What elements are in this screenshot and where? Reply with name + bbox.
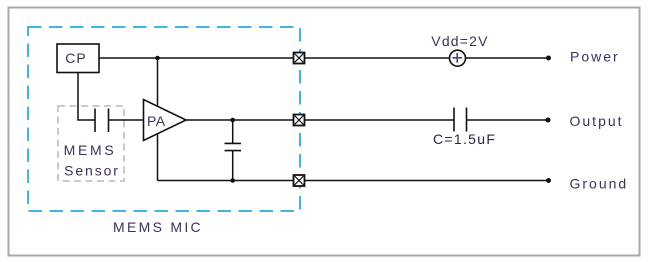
wire PA bottom to ground <box>157 134 159 181</box>
node ground terminal <box>546 178 551 183</box>
op-amp PA (preamplifier) <box>144 100 187 141</box>
node junction output/bypass cap <box>230 118 235 123</box>
wire output pad to coupling cap <box>305 119 455 121</box>
capacitor C=1.5uF <box>454 108 467 132</box>
node power terminal <box>546 56 551 61</box>
wire junction down to PA bias <box>157 58 159 107</box>
MEMS sensor capacitor <box>95 109 109 133</box>
wire sensor to PA input <box>109 119 144 121</box>
label MEMS Sensor <box>64 142 120 179</box>
svg-text:Sensor: Sensor <box>64 163 120 179</box>
node output terminal <box>546 118 551 123</box>
MEMS Sensor dashed box <box>58 106 124 181</box>
svg-text:Power: Power <box>570 49 620 65</box>
node junction on power wire <box>155 56 160 61</box>
svg-text:Output: Output <box>570 113 624 129</box>
wire coupling cap to output terminal <box>467 119 549 121</box>
voltage source Vdd <box>450 50 466 66</box>
ground wire inside mic <box>158 180 294 182</box>
charge pump CP <box>57 44 99 73</box>
wire power pad to Vdd source <box>305 57 450 59</box>
bypass capacitor <box>225 120 242 181</box>
svg-text:CP: CP <box>65 50 86 66</box>
MEMS MIC dashed boundary box <box>28 27 300 211</box>
wire CP bottom down <box>78 73 95 121</box>
pad power <box>294 53 305 64</box>
svg-text:MEMS: MEMS <box>64 142 117 158</box>
pad output <box>294 115 305 126</box>
wire PA output to output pad <box>186 119 294 121</box>
wire ground pad to ground terminal <box>305 180 549 182</box>
svg-text:Ground: Ground <box>570 176 629 192</box>
wire Vdd source to power terminal <box>466 57 549 59</box>
node junction ground/bypass cap <box>230 178 235 183</box>
pad ground <box>294 175 305 186</box>
svg-text:MEMS MIC: MEMS MIC <box>113 219 203 235</box>
wire CP output to power pad <box>99 57 294 59</box>
svg-text:C=1.5uF: C=1.5uF <box>433 131 496 147</box>
svg-text:Vdd=2V: Vdd=2V <box>431 33 488 49</box>
svg-text:PA: PA <box>147 113 166 129</box>
